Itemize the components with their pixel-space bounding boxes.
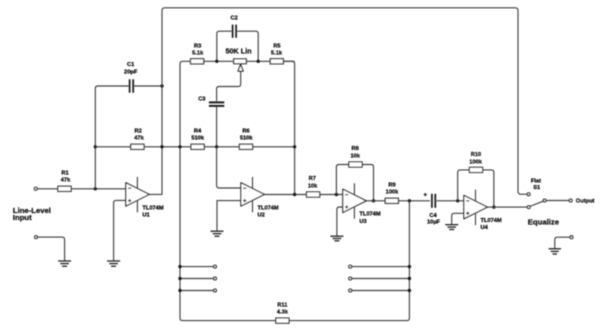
terminal lower input <box>35 236 38 239</box>
svg-text:10k: 10k <box>350 153 360 159</box>
terminal right stub 2 <box>349 277 352 280</box>
svg-text:10µF: 10µF <box>427 219 441 225</box>
wire U3 non-inverting input to ground <box>337 207 343 236</box>
svg-text:TL074M: TL074M <box>359 212 380 218</box>
switch S1 lever <box>530 201 543 206</box>
wire U1 output up and top loop to flat contact <box>149 8 527 195</box>
wire lower input terminal to ground <box>38 237 65 261</box>
svg-text:20pF: 20pF <box>124 69 138 75</box>
ground output reference <box>549 248 561 250</box>
svg-text:50K Lin: 50K Lin <box>226 47 252 56</box>
resistor R5 <box>270 59 283 64</box>
op-amp U1 <box>126 183 149 206</box>
node left bus stub 2 <box>178 277 181 280</box>
svg-text:R7: R7 <box>309 176 316 182</box>
wire U4 non-inverting input to ground <box>452 213 464 224</box>
wire C3 bottom to R4 line <box>216 107 218 147</box>
capacitor C4 <box>431 194 433 208</box>
switch S1 equalize contact <box>527 206 530 209</box>
node R10 left junction <box>456 199 459 202</box>
svg-text:10k: 10k <box>308 183 318 189</box>
svg-text:Output: Output <box>576 199 595 205</box>
node R8 right at U3 output <box>372 199 375 202</box>
wire U2 non-inverting input to ground <box>217 201 241 231</box>
switch S1 pole <box>543 199 546 202</box>
op-amp U2 <box>241 183 264 206</box>
svg-text:R10: R10 <box>471 152 481 158</box>
svg-text:S1: S1 <box>533 185 540 191</box>
svg-text:47k: 47k <box>134 136 144 142</box>
node right bus stub 1 <box>408 265 411 268</box>
node right bus stub 3 <box>408 289 411 292</box>
capacitor C2 <box>232 25 234 38</box>
wire R10 feedback loop <box>458 170 494 207</box>
svg-text:C2: C2 <box>231 16 238 22</box>
wire pole to output terminal <box>546 200 569 202</box>
wire right bus stub 2 <box>352 278 410 280</box>
wire U4 output to equalize contact <box>487 206 527 208</box>
node C3 at R4 line <box>215 145 218 148</box>
wire left bus stub 3 <box>180 290 213 292</box>
terminal left stub 3 <box>214 289 217 292</box>
capacitor C1 <box>129 79 131 92</box>
svg-text:R5: R5 <box>273 43 280 49</box>
svg-text:5.1k: 5.1k <box>271 51 283 57</box>
wire C2 right leg <box>237 31 258 61</box>
svg-text:C1: C1 <box>127 62 134 68</box>
svg-text:U3: U3 <box>359 219 366 225</box>
resistor R3 <box>191 59 204 64</box>
svg-text:C4: C4 <box>429 213 437 219</box>
terminal lower output <box>570 236 573 239</box>
op-amp U3 <box>343 189 366 212</box>
svg-text:R1: R1 <box>61 170 68 176</box>
svg-text:47k: 47k <box>61 178 71 184</box>
node left bus stub 1 <box>178 265 181 268</box>
node U2 output R7 junction <box>293 193 296 196</box>
node R6 right at R5 leg <box>293 145 296 148</box>
wire U1 non-inverting input to ground <box>114 200 126 260</box>
wire node to U2 inverting input <box>217 147 241 188</box>
resistor R10 <box>469 167 482 172</box>
wire lower output terminal to ground <box>555 237 570 248</box>
potentiometer wiper arrow <box>238 64 243 71</box>
svg-text:510k: 510k <box>240 136 253 142</box>
node R2 left junction <box>94 145 97 148</box>
svg-text:Equalize: Equalize <box>528 218 560 227</box>
svg-text:100k: 100k <box>386 190 399 196</box>
terminal output <box>569 199 572 202</box>
svg-text:U4: U4 <box>481 225 489 231</box>
svg-text:R2: R2 <box>135 128 142 134</box>
resistor R9 <box>385 198 398 203</box>
ground U4 non-inverting <box>445 224 458 226</box>
wire left bus stub 2 <box>180 278 213 280</box>
svg-text:100k: 100k <box>469 159 482 165</box>
ground U1 non-inverting <box>107 260 120 262</box>
svg-text:Flat: Flat <box>531 178 541 184</box>
node C2 left at pot line <box>215 60 218 63</box>
wire right bus down to bottom line <box>289 201 409 321</box>
wire input to U1 inverting input <box>37 188 125 190</box>
svg-text:C3: C3 <box>198 97 205 103</box>
wire C1 left leg down to input node <box>95 86 128 189</box>
svg-text:R6: R6 <box>242 128 249 134</box>
potentiometer 50K Lin body <box>234 59 247 64</box>
svg-text:5.1k: 5.1k <box>192 51 204 57</box>
wire U2 output to U3 inverting input <box>264 194 343 196</box>
svg-text:R4: R4 <box>194 128 202 134</box>
node left bus stub 3 <box>178 289 181 292</box>
wire left bus stub 1 <box>180 266 213 268</box>
wire U3 output to C4 <box>366 200 430 202</box>
capacitor C3 <box>209 101 224 103</box>
svg-text:R8: R8 <box>352 146 359 152</box>
wire pot line R3 to R5 <box>204 60 295 62</box>
resistor R4 <box>191 144 204 149</box>
wire C4 to U4 inverting input <box>437 200 464 202</box>
resistor R11 <box>276 318 289 323</box>
wire right bus stub 3 <box>352 290 410 292</box>
wire pot wiper to C3 <box>217 71 241 102</box>
resistor R2 <box>131 144 144 149</box>
ground input reference <box>58 260 71 262</box>
node right bus stub 2 <box>408 277 411 280</box>
svg-text:4.3k: 4.3k <box>277 309 289 315</box>
node R8 left junction <box>335 193 338 196</box>
wire C2 left leg <box>217 31 232 61</box>
node feedback at R2 line <box>160 145 163 148</box>
ground U2 non-inverting <box>211 230 224 232</box>
svg-text:R9: R9 <box>388 182 395 188</box>
node R10 right at U4 output <box>492 205 495 208</box>
wire main feedback line R2 R4 R6 <box>95 146 294 148</box>
ground U3 non-inverting <box>330 235 343 237</box>
node C1 right junction <box>160 84 163 87</box>
node input/feedback junction <box>94 187 97 190</box>
terminal right stub 3 <box>349 289 352 292</box>
wire R5 right down to U2 output <box>283 61 295 194</box>
svg-text:TL074M: TL074M <box>258 205 279 211</box>
wire left bus from R3 down to bottom <box>180 61 276 320</box>
node right bus top junction <box>408 199 411 202</box>
node C2 right at pot line <box>257 60 260 63</box>
svg-text:R11: R11 <box>277 302 287 308</box>
node left bus at R2 line <box>178 145 181 148</box>
wire right bus stub 1 <box>352 266 410 268</box>
svg-text:U2: U2 <box>258 213 265 219</box>
resistor R8 <box>349 162 362 167</box>
svg-text:510k: 510k <box>191 136 204 142</box>
wire C1 right leg <box>134 85 162 87</box>
svg-text:Input: Input <box>13 213 32 222</box>
terminal input <box>34 187 37 190</box>
wire R8 feedback loop <box>336 165 373 201</box>
terminal left stub 2 <box>214 277 217 280</box>
terminal right stub 1 <box>349 265 352 268</box>
svg-text:TL074M: TL074M <box>481 218 502 224</box>
svg-text:TL074M: TL074M <box>142 205 163 211</box>
switch S1 flat contact <box>527 193 530 196</box>
resistor R7 <box>307 192 320 197</box>
resistor R1 <box>58 186 71 191</box>
resistor R6 <box>239 144 252 149</box>
svg-text:U1: U1 <box>142 213 149 219</box>
terminal left stub 1 <box>214 265 217 268</box>
svg-text:R3: R3 <box>194 43 201 49</box>
op-amp U4 <box>464 195 487 218</box>
